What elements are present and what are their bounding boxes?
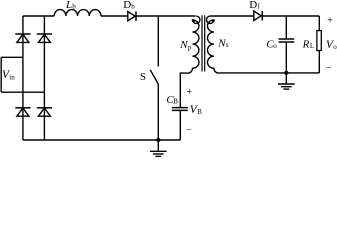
wire: bridge rail 1 (left leg vertical) [22,16,24,140]
resistor RL: upper wire [318,16,320,31]
wire: secondary top bus to Df [210,15,319,17]
capacitor CB plates [172,108,188,111]
label + (Vo polarity) [327,15,333,26]
wire: primary bottom stem to CB [180,73,187,107]
polarity dot: secondary [212,19,215,22]
ground (right, below output bus) [278,73,295,89]
svg-text:R: R [302,38,310,50]
svg-text:b: b [131,2,135,10]
label RL [302,38,315,50]
svg-text:D: D [249,0,257,11]
svg-text:+: + [187,87,193,98]
label Df [249,0,260,11]
wire: bridge rail 2 (right leg vertical) [43,16,45,140]
svg-text:D: D [123,0,131,11]
resistor RL: lower wire [318,51,320,73]
diode bridge D2 (top-right, pointing up) [37,34,52,42]
junction dot: Co / ground / bottom bus [284,71,288,75]
label VB [190,104,202,116]
switch S blade (open) [150,70,158,84]
label - (VB polarity) [186,124,192,135]
svg-text:in: in [9,74,15,82]
junction dot: switch / ground / bottom bus [156,138,160,142]
switch S lower terminal wire [157,84,159,140]
diode bridge D1 (top-left, pointing up) [15,34,30,42]
label Np [179,39,192,52]
diode Df (output diode, pointing right) [254,11,262,21]
svg-text:L: L [65,0,72,11]
label - (Vo polarity) [326,63,332,74]
svg-text:S: S [140,71,146,83]
svg-text:f: f [257,2,260,10]
svg-text:p: p [188,44,192,52]
svg-text:o: o [333,43,337,51]
label CB [166,94,178,106]
svg-text:L: L [310,42,314,50]
wire: top bus from bridge to transformer primary [23,15,196,17]
wire: Vin upper terminal [1,56,23,58]
capacitor Co plates [279,39,295,42]
resistor RL body (rectangle) [317,31,321,51]
svg-text:B: B [197,108,202,116]
svg-text:B: B [173,97,178,105]
label Vo [326,39,337,51]
transformer secondary winding Ns [207,16,219,73]
wire: Vin source left edge [0,57,2,92]
polarity dot: primary [192,19,195,22]
label Ns [217,38,229,50]
switch S branch: upper terminal wire [157,16,159,67]
inductor Lb (boost inductor, 4 humps) [54,10,101,16]
label Lb [65,0,76,11]
label Co [266,38,277,50]
transformer core lines [202,15,205,71]
capacitor Co: lower wire [285,43,287,73]
label + (VB polarity) [187,87,193,98]
diode bridge D4 (bottom-right, pointing up) [37,108,52,116]
wire: secondary bottom bus [219,72,319,74]
capacitor CB: lower wire to bottom bus [179,111,181,140]
wire: bottom bus [23,139,180,141]
svg-text:o: o [273,42,277,50]
svg-text:s: s [226,41,229,49]
svg-text:−: − [326,63,332,74]
diode bridge D3 (bottom-left, pointing up) [15,108,30,116]
svg-text:+: + [327,15,333,26]
wire: Vin lower terminal [1,91,44,93]
svg-text:−: − [186,124,192,135]
label Db [123,0,135,11]
label S [140,71,146,83]
diode Db (boost diode, pointing right) [128,12,136,21]
ground (left, below bottom bus) [150,140,167,156]
svg-text:b: b [72,3,76,11]
capacitor Co: upper wire [285,16,287,38]
node Vin label [2,69,15,82]
transformer primary winding Np [188,16,200,73]
